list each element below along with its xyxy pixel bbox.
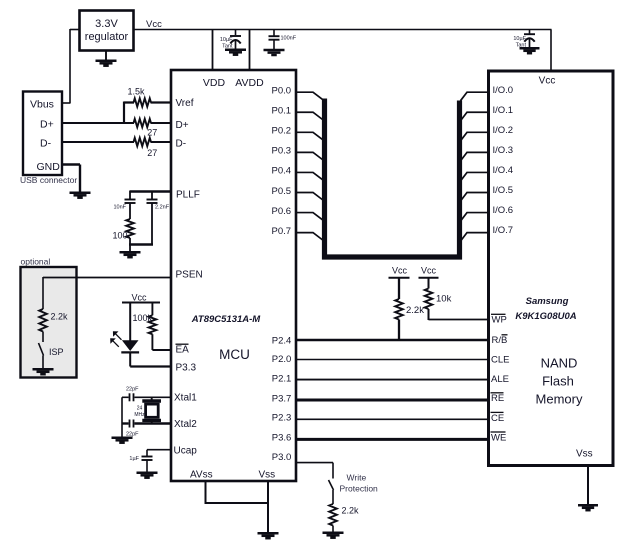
svg-text:P3.7: P3.7: [272, 394, 292, 405]
svg-text:I/O.7: I/O.7: [493, 225, 514, 236]
svg-text:Flash: Flash: [542, 374, 574, 389]
svg-text:Vcc: Vcc: [539, 76, 556, 87]
svg-text:I/O.4: I/O.4: [493, 165, 514, 176]
svg-text:ALE: ALE: [491, 374, 509, 385]
svg-text:Samsung: Samsung: [526, 296, 569, 307]
svg-text:P2.0: P2.0: [272, 354, 292, 365]
svg-text:10nF: 10nF: [113, 205, 126, 211]
svg-text:Vbus: Vbus: [30, 99, 54, 111]
svg-text:I/O.3: I/O.3: [493, 145, 514, 156]
svg-text:D+: D+: [176, 120, 189, 131]
svg-text:Xtal1: Xtal1: [174, 393, 197, 404]
svg-text:EA: EA: [176, 345, 190, 356]
svg-text:I/O.2: I/O.2: [493, 125, 514, 136]
svg-text:NAND: NAND: [541, 356, 578, 371]
svg-text:I/O.1: I/O.1: [493, 105, 514, 116]
svg-text:22pF: 22pF: [126, 386, 139, 392]
svg-text:100nF: 100nF: [281, 36, 297, 42]
svg-text:P0.4: P0.4: [272, 166, 292, 177]
svg-text:10k: 10k: [436, 294, 452, 305]
svg-text:AVss: AVss: [190, 470, 213, 481]
svg-text:AT89C5131A-M: AT89C5131A-M: [191, 314, 262, 325]
svg-text:P2.1: P2.1: [272, 373, 292, 384]
svg-text:I/O.0: I/O.0: [493, 85, 514, 96]
svg-text:P0.0: P0.0: [272, 86, 292, 97]
svg-text:Vcc: Vcc: [146, 19, 162, 30]
svg-text:P0.7: P0.7: [272, 226, 292, 237]
svg-text:2.2nF: 2.2nF: [155, 205, 170, 211]
svg-text:CLE: CLE: [491, 355, 509, 366]
svg-text:Vcc: Vcc: [131, 293, 147, 303]
svg-text:P3.6: P3.6: [272, 432, 292, 443]
svg-text:D+: D+: [40, 119, 54, 131]
svg-text:Write: Write: [347, 473, 367, 483]
svg-text:Xtal2: Xtal2: [174, 419, 197, 430]
svg-text:VDD: VDD: [203, 77, 226, 89]
svg-text:regulator: regulator: [85, 31, 129, 43]
svg-text:2.2k: 2.2k: [406, 305, 424, 316]
svg-text:P0.1: P0.1: [272, 106, 292, 117]
svg-text:27: 27: [147, 127, 157, 137]
svg-text:27: 27: [147, 148, 157, 158]
svg-text:100k: 100k: [133, 313, 153, 323]
svg-text:2.2k: 2.2k: [51, 312, 69, 322]
svg-text:Vcc: Vcc: [421, 265, 437, 275]
svg-text:ISP: ISP: [49, 347, 64, 357]
svg-text:3.3V: 3.3V: [95, 18, 118, 30]
svg-text:I/O.5: I/O.5: [493, 185, 514, 196]
svg-text:PLLF: PLLF: [176, 190, 200, 201]
svg-text:Ucap: Ucap: [174, 446, 198, 457]
svg-text:R/B: R/B: [492, 335, 508, 346]
svg-text:1.5k: 1.5k: [128, 87, 146, 97]
svg-text:Vcc: Vcc: [392, 265, 408, 275]
svg-text:K9K1G08U0A: K9K1G08U0A: [515, 311, 576, 322]
svg-text:WE: WE: [491, 433, 506, 444]
svg-text:P0.3: P0.3: [272, 146, 292, 157]
svg-text:Memory: Memory: [536, 392, 583, 407]
svg-text:P0.5: P0.5: [272, 186, 292, 197]
svg-text:Tant: Tant: [222, 44, 233, 50]
svg-text:P2.3: P2.3: [272, 413, 292, 424]
svg-text:P3.0: P3.0: [272, 452, 292, 463]
svg-text:10µF: 10µF: [220, 37, 233, 43]
svg-text:I/O.6: I/O.6: [493, 205, 514, 216]
svg-text:1µF: 1µF: [129, 456, 139, 462]
svg-text:AVDD: AVDD: [235, 77, 264, 89]
svg-text:Protection: Protection: [340, 484, 379, 494]
svg-text:Vss: Vss: [259, 470, 276, 481]
svg-text:100: 100: [113, 231, 128, 241]
svg-text:RE: RE: [491, 393, 504, 404]
svg-text:D-: D-: [176, 139, 187, 150]
svg-text:P0.2: P0.2: [272, 126, 292, 137]
svg-text:MHz: MHz: [134, 412, 145, 418]
svg-text:10µF: 10µF: [513, 36, 526, 42]
svg-text:CE: CE: [491, 413, 504, 424]
svg-text:GND: GND: [37, 161, 61, 173]
svg-text:WP: WP: [492, 315, 507, 326]
svg-text:optional: optional: [21, 257, 51, 267]
svg-text:Tant: Tant: [516, 43, 527, 49]
svg-text:D-: D-: [40, 138, 52, 150]
svg-text:MCU: MCU: [219, 347, 250, 362]
svg-text:24: 24: [137, 406, 143, 412]
svg-text:Vss: Vss: [576, 449, 593, 460]
svg-text:PSEN: PSEN: [176, 270, 203, 281]
svg-text:USB connector: USB connector: [20, 175, 77, 185]
svg-text:Vref: Vref: [176, 98, 194, 109]
svg-text:2.2k: 2.2k: [342, 506, 360, 516]
svg-text:P2.4: P2.4: [272, 336, 292, 347]
svg-text:P0.6: P0.6: [272, 206, 292, 217]
svg-text:P3.3: P3.3: [176, 363, 197, 374]
